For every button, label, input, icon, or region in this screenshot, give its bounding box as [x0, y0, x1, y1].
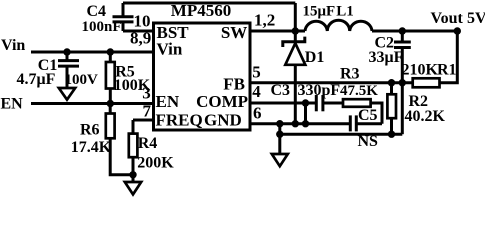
wire COMP-GND vertical — [304, 103, 307, 124]
wire SW pin 1,2 — [250, 30, 305, 33]
svg-text:R4: R4 — [138, 135, 158, 152]
svg-text:4: 4 — [252, 82, 261, 101]
svg-text:GND: GND — [204, 111, 242, 130]
wire BST pin 10 — [123, 30, 154, 33]
svg-text:10: 10 — [134, 11, 151, 30]
svg-text:47.5K: 47.5K — [340, 83, 378, 99]
capacitor C4 — [82, 3, 134, 35]
wire bootstrap right vertical — [294, 3, 297, 31]
svg-text:40.2K: 40.2K — [405, 108, 446, 125]
svg-text:6: 6 — [253, 104, 262, 123]
svg-text:EN: EN — [156, 92, 180, 111]
wire Vout line — [372, 30, 457, 33]
svg-text:R3: R3 — [340, 65, 360, 82]
svg-text:100V: 100V — [65, 72, 99, 88]
node junction GND-ground drop — [276, 120, 283, 127]
node junction C1-Vin — [63, 48, 70, 55]
wire FB pin 5 — [250, 81, 413, 84]
svg-text:FB: FB — [223, 74, 245, 93]
node junction COMP vertical — [302, 99, 309, 106]
resistor R5 — [106, 52, 151, 104]
svg-text:Vout: Vout — [431, 10, 464, 27]
wire Vin rail — [31, 51, 154, 54]
svg-text:Vin: Vin — [157, 40, 183, 59]
svg-text:4.7μF: 4.7μF — [17, 71, 56, 88]
wire FREQ pin 7 — [133, 119, 154, 122]
svg-text:15μF: 15μF — [303, 3, 336, 19]
svg-text:330pF: 330pF — [298, 82, 341, 99]
svg-text:100nF: 100nF — [82, 19, 122, 35]
svg-text:R1: R1 — [437, 61, 457, 78]
resistor R3 — [340, 65, 378, 106]
resistor R2 — [387, 83, 445, 135]
node junction FB-R2 — [388, 79, 395, 86]
svg-text:200K: 200K — [137, 155, 174, 172]
svg-text:SW: SW — [221, 23, 247, 42]
inductor L1 — [305, 20, 372, 31]
capacitor C2 — [369, 27, 411, 82]
svg-text:COMP: COMP — [196, 92, 248, 111]
wire C5 to R3 drop — [356, 122, 382, 125]
node junction R4-R6-ground — [129, 171, 136, 178]
svg-text:R6: R6 — [80, 122, 100, 139]
svg-text:MP4560: MP4560 — [171, 1, 231, 20]
resistor R1 — [402, 61, 457, 87]
op-amp U1 MP4560 chip body — [154, 23, 251, 130]
node junction NS-R2 — [388, 131, 395, 138]
wire COMP pin 4 — [250, 102, 316, 105]
svg-text:7: 7 — [143, 102, 152, 121]
svg-text:EN: EN — [1, 96, 24, 113]
wire Vout right vertical — [440, 31, 458, 83]
node junction R5-R6-EN — [107, 100, 114, 107]
node SW junction — [292, 27, 299, 34]
wire ground drop — [278, 124, 281, 154]
resistor R4 — [129, 120, 174, 175]
svg-text:3: 3 — [142, 84, 151, 103]
wire C2 line down to NS — [401, 83, 404, 135]
wire EN rail — [31, 102, 154, 105]
svg-text:1,2: 1,2 — [254, 11, 275, 30]
svg-text:C5: C5 — [358, 107, 378, 124]
node junction FB-C2 line — [399, 79, 406, 86]
node junction R5-Vin — [107, 48, 114, 55]
ground under R4 — [125, 175, 141, 195]
svg-text:NS: NS — [358, 133, 379, 150]
wire GND pin 6 — [250, 122, 350, 125]
svg-text:210K: 210K — [402, 61, 439, 78]
diode D1 — [283, 31, 325, 124]
node junction GND-COMP vertical — [302, 120, 309, 127]
svg-text:17.4K: 17.4K — [71, 139, 112, 156]
ground main — [272, 154, 288, 166]
svg-text:5V: 5V — [467, 10, 485, 27]
wire bootstrap top — [123, 2, 295, 5]
node junction GND-D1 — [292, 120, 299, 127]
svg-text:5: 5 — [252, 63, 260, 82]
svg-text:Vin: Vin — [1, 37, 25, 54]
wire C3 to R3 — [323, 102, 343, 105]
capacitor C1 — [17, 52, 99, 88]
node junction NS-ground — [276, 131, 283, 138]
node junction Vout corner — [454, 27, 461, 34]
svg-text:L1: L1 — [336, 3, 354, 19]
capacitor C5 — [350, 107, 377, 132]
svg-text:C3: C3 — [271, 82, 291, 99]
capacitor C3 — [271, 82, 341, 111]
svg-text:C4: C4 — [87, 3, 107, 20]
svg-text:FREQ: FREQ — [156, 111, 203, 130]
resistor R6 — [71, 104, 133, 175]
svg-text:D1: D1 — [305, 49, 325, 66]
wire R3 right down — [371, 103, 382, 124]
ground under C1 — [59, 88, 75, 100]
wire NS line — [280, 133, 403, 136]
svg-text:8,9: 8,9 — [130, 29, 151, 48]
svg-text:33μF: 33μF — [369, 49, 404, 66]
